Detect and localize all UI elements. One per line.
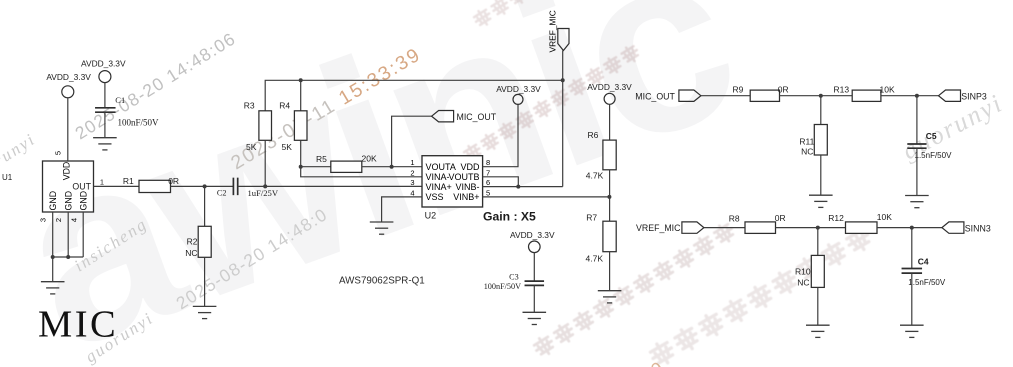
svg-text:AVDD_3.3V: AVDD_3.3V [81,59,126,69]
wire R2 to ground [204,257,206,306]
wire C4 to ground [911,273,913,325]
svg-text:SINP3: SINP3 [961,92,987,102]
resistor R3 [259,111,272,141]
svg-text:5K: 5K [246,142,257,152]
svg-text:VDD: VDD [62,162,72,181]
ground C3 [523,312,547,324]
svg-text:MIC_OUT: MIC_OUT [635,92,675,102]
junction C4 tap [910,226,914,230]
power symbol AVDD_3.3V (C1) [99,71,111,83]
wire MIC_OUT to R9 [701,95,750,97]
svg-text:R12: R12 [828,213,844,223]
svg-text:0R: 0R [775,213,786,223]
svg-text:5: 5 [54,151,63,155]
svg-text:1uF/25V: 1uF/25V [248,188,279,198]
svg-text:1: 1 [410,158,414,167]
svg-text:GND: GND [79,191,89,211]
resistor R12 [846,222,878,234]
watermark: chinese text E1 艾为保密资料禁止拍照 [462,44,641,164]
capacitor C2 [233,178,237,196]
svg-text:MIC_OUT: MIC_OUT [457,112,497,122]
port VREF_MIC (row2) [682,222,704,233]
wire C2 to U2 pin3 [238,185,422,187]
capacitor C5 [907,144,926,148]
svg-text:5: 5 [486,188,490,197]
wire U1 OUT to R1 [94,185,140,187]
svg-text:100nF/50V: 100nF/50V [118,118,160,128]
wire VREF_MIC to R8 [704,227,745,229]
svg-text:R8: R8 [729,214,740,224]
svg-text:VINA-: VINA- [426,172,450,182]
resistor R11 [814,125,827,156]
power symbol AVDD_3.3V (U1) [62,86,74,98]
resistor R9 [750,90,779,101]
wire U2 VOUTB to VINB- [483,177,519,187]
resistor R13 [852,90,881,101]
watermark: chinese text E3 艾为保密资料禁止拍照 bottom [532,221,737,358]
wire to MIC_OUT port [392,116,432,167]
svg-text:5K: 5K [282,142,293,152]
svg-text:VINB-: VINB- [455,182,479,192]
svg-text:VINB+: VINB+ [453,192,479,202]
capacitor C1 [95,108,116,112]
ground R11 [809,195,833,207]
svg-text:AVDD_3.3V: AVDD_3.3V [46,72,91,82]
wire R9 to R13 [780,95,853,97]
svg-text:AWS79062SPR-Q1: AWS79062SPR-Q1 [339,276,425,287]
port SINN3 [942,222,964,233]
wire R5 left lead [301,166,331,168]
svg-text:3: 3 [39,218,48,222]
wire power to R6 [609,104,611,140]
ground U1 [41,282,65,294]
svg-text:C5: C5 [926,131,937,141]
wire R3 to VINA+ net [264,140,266,186]
ground C1 [93,138,117,150]
svg-text:NC: NC [797,278,809,288]
svg-text:C4: C4 [918,256,929,266]
wire junction to C5 [916,96,918,144]
svg-text:8: 8 [486,158,490,167]
svg-text:0R: 0R [168,176,179,186]
svg-text:1.5nF/50V: 1.5nF/50V [908,278,946,287]
ground R10 [806,325,830,337]
IC U1 microphone body [43,161,94,212]
wire power to C1 [104,83,106,108]
wire junction to C4 [911,228,913,269]
svg-text:VREF_MIC: VREF_MIC [636,223,681,233]
svg-text:4.7K: 4.7K [586,253,604,263]
svg-text:Gain : X5: Gain : X5 [483,209,536,223]
svg-text:6: 6 [486,178,490,187]
svg-text:R6: R6 [588,130,599,140]
junction U1 gnd bus mid [66,255,70,259]
wire U1 pin4 to bus [82,212,84,257]
wire R7 to ground [609,252,611,291]
svg-text:VOUTA: VOUTA [426,162,456,172]
junction R11 tap [819,94,823,98]
svg-text:10K: 10K [880,84,895,94]
port SINP3 [939,90,961,101]
svg-text:R3: R3 [244,100,255,110]
svg-text:R11: R11 [799,136,814,146]
wire R1 to C2 [171,185,234,187]
power symbol AVDD_3.3V (U2) [513,94,523,104]
svg-text:AVDD_3.3V: AVDD_3.3V [510,230,555,240]
wire C3 to ground [533,285,535,312]
wire R4 to U2 pin2 [301,140,422,177]
wire bus to ground [52,257,54,282]
junction VREF_MIC on rail [561,78,565,82]
wire R12 to SINN3 [877,227,942,229]
wire U2 VDD pin8 [483,105,518,167]
svg-text:C2: C2 [217,188,227,197]
op-amp U2 body [422,156,483,207]
capacitor C4 [902,269,923,274]
svg-text:R9: R9 [733,84,744,94]
wire power to C3 [533,252,535,281]
svg-text:100nF/50V: 100nF/50V [484,282,521,291]
svg-text:VINA+: VINA+ [426,182,452,192]
resistor R7 [603,221,616,252]
svg-text:20K: 20K [362,154,377,164]
wire U2 VINB+ to divider [483,196,610,198]
svg-text:3: 3 [410,178,414,187]
svg-text:VREF_MIC: VREF_MIC [547,10,557,52]
junction R2 tap [203,184,207,188]
wire VREF_MIC port to rail [562,51,564,81]
svg-text:GND: GND [64,191,74,211]
power symbol AVDD_3.3V (R6) [604,93,615,104]
junction R5 left [299,165,303,169]
resistor R5 [331,161,362,172]
junction U1 gnd bus left [51,255,55,259]
port MIC_OUT (at U2) [432,111,454,122]
port VREF_MIC (top) [558,29,569,51]
watermark: chinese text E4 艾为保密资料禁止拍照 bottom right [648,225,873,367]
wire gnd bus [53,256,83,258]
svg-text:VOUTB: VOUTB [448,172,479,182]
junction VOUTB/VINB- [516,185,520,189]
ground C4 [900,325,924,337]
resistor R1 [139,180,171,192]
svg-text:7: 7 [486,168,490,177]
svg-text:R7: R7 [586,213,597,223]
resistor R2 [198,226,211,257]
svg-text:C1: C1 [115,95,125,105]
svg-text:1: 1 [100,178,104,187]
svg-text:4: 4 [70,218,79,222]
wire junction to R10 [817,228,819,256]
resistor R4 [294,111,307,141]
wire U2 pin6 to rail [483,186,563,188]
wire U1 pin2 to bus [67,212,69,257]
resistor R6 [603,140,616,170]
svg-text:4.7K: 4.7K [586,170,604,180]
svg-text:NC: NC [185,248,197,258]
svg-text:C3: C3 [509,273,519,282]
wire R13 to SINP3 [881,95,939,97]
svg-text:U1: U1 [2,173,13,182]
wire C1 to ground [104,112,106,137]
junction R10 tap [816,226,820,230]
svg-text:VDD: VDD [460,162,480,172]
wire R11 to ground [820,155,822,195]
svg-text:GND: GND [48,191,58,211]
svg-text:MIC: MIC [38,304,118,346]
svg-text:4: 4 [410,188,414,197]
junction R3 bottom [263,184,267,188]
wire top rail [265,80,563,186]
wire U2 VSS to ground [382,197,422,222]
wire R8 to R12 [776,227,846,229]
svg-text:2: 2 [410,168,414,177]
capacitor C3 [525,281,545,285]
ground R7 [598,291,622,303]
svg-text:R13: R13 [834,84,850,94]
wire junction to R2 [204,186,206,226]
ground U2 VSS [370,222,394,234]
svg-text:AVDD_3.3V: AVDD_3.3V [587,82,632,92]
svg-text:OUT: OUT [72,182,91,192]
svg-text:AVDD_3.3V: AVDD_3.3V [496,84,541,94]
svg-text:SINN3: SINN3 [965,224,991,234]
junction C5 tap [915,94,919,98]
resistor R10 [811,255,824,287]
svg-text:1.5nF/50V: 1.5nF/50V [915,151,953,160]
resistor R8 [745,222,776,234]
svg-text:2: 2 [54,218,63,222]
watermark: chinese text E2 艾为保密 top edge [472,0,546,29]
wire R6 to R7 [609,170,611,221]
wire R10 to ground [817,287,819,325]
wire R5 to U2 pin1 [362,166,422,168]
junction MIC_OUT riser [390,165,394,169]
wire U1 VDD pin 5 [67,97,69,161]
svg-text:R5: R5 [316,154,327,164]
svg-text:R10: R10 [795,267,811,277]
ground R2 [193,306,217,318]
wire U1 pin3 to bus [52,212,54,257]
wire rail to R4 [300,80,302,111]
wire C5 to ground [916,148,918,195]
wire junction to R11 [820,96,822,125]
junction R4 top on rail [299,78,303,82]
svg-text:VSS: VSS [426,192,444,202]
svg-text:U2: U2 [425,210,437,220]
power symbol AVDD_3.3V (C3) [529,241,541,253]
svg-text:0R: 0R [778,84,789,94]
svg-text:10K: 10K [877,212,892,222]
svg-text:R4: R4 [279,100,290,110]
svg-text:R2: R2 [187,237,198,247]
junction VINB+ divider [607,195,611,199]
svg-text:NC: NC [801,146,813,156]
svg-text:R1: R1 [123,176,134,186]
ground C5 [905,196,929,208]
port MIC_OUT (row1) [679,90,701,101]
